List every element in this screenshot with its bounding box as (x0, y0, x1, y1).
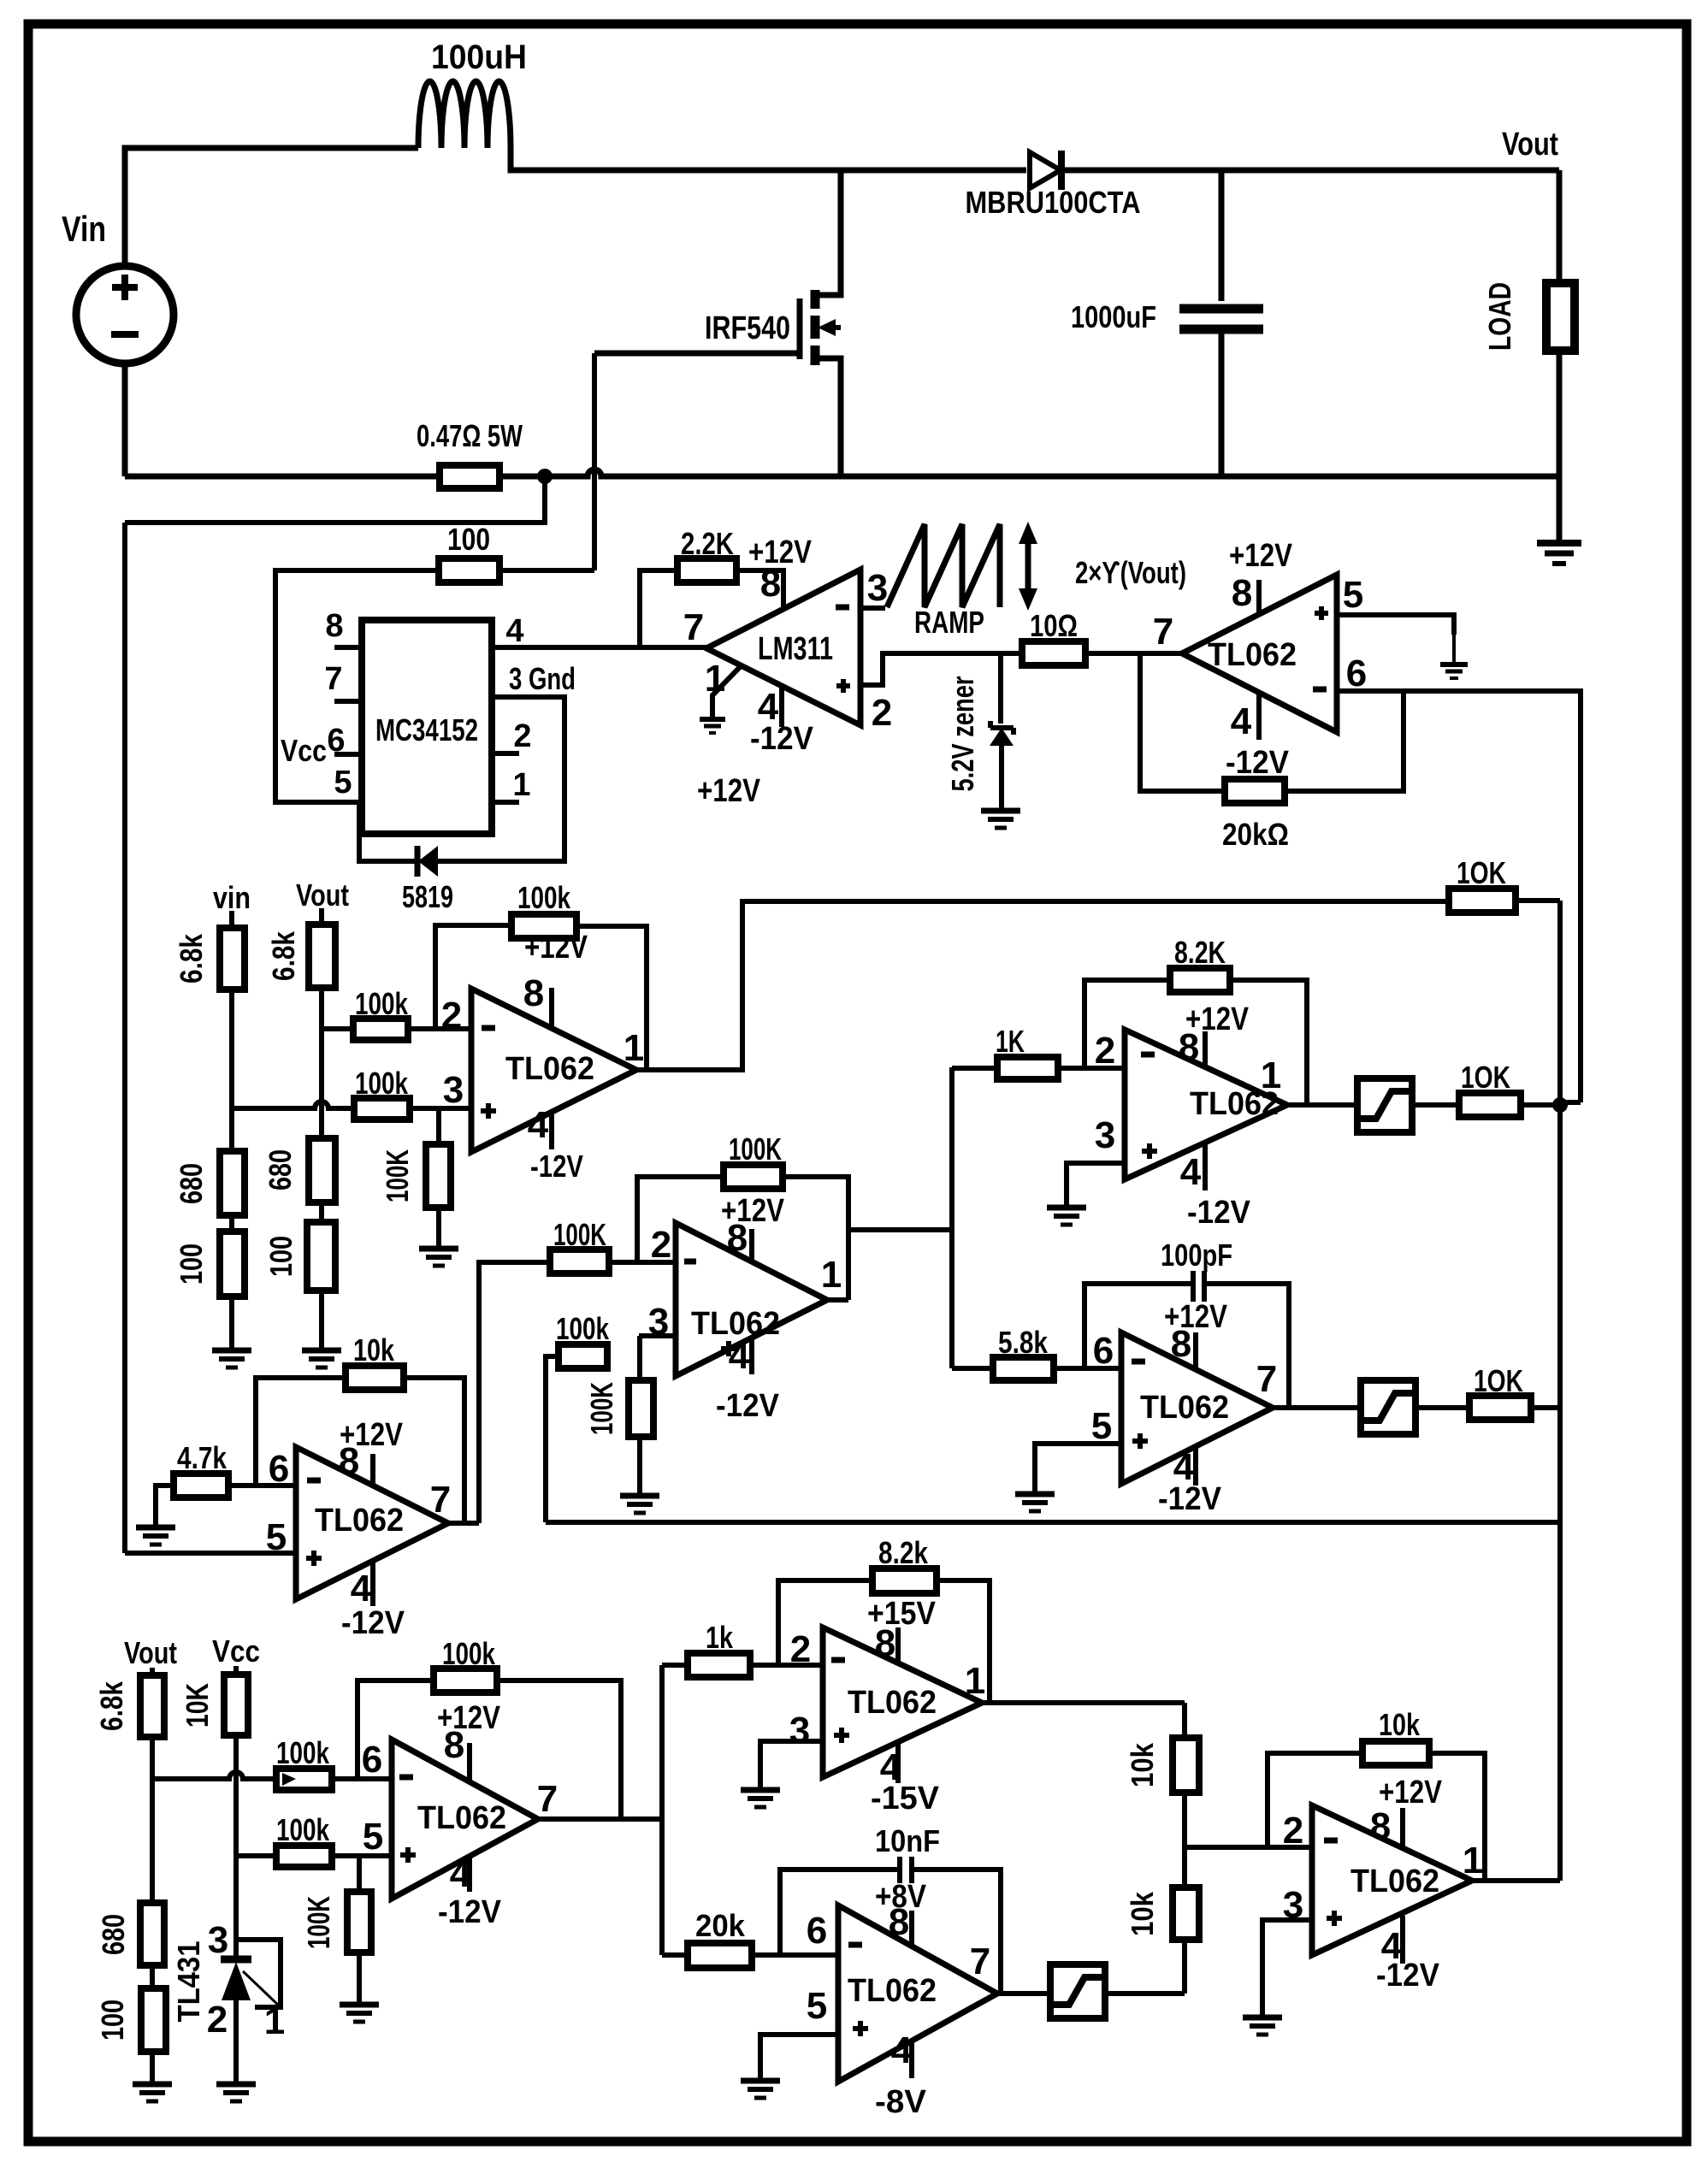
resistor R11 100 (307, 1222, 335, 1291)
op-amp U3 TL062 ramp buffer (1182, 575, 1337, 732)
resistor R12 100k (354, 1098, 410, 1119)
pin 8 stub (370, 1454, 375, 1486)
ground 4.7k (136, 1525, 175, 1531)
svg-text:TL062: TL062 (1350, 1864, 1439, 1899)
wire feedback right (1429, 1753, 1485, 1881)
plus sign (306, 1556, 322, 1561)
wire (229, 1215, 234, 1232)
wire 100 right lead (499, 568, 594, 573)
svg-text:8: 8 (1171, 1323, 1191, 1365)
op-amp U2 LM311 (706, 570, 860, 725)
resistor R5 20k (1225, 779, 1285, 803)
svg-text:7: 7 (970, 1940, 990, 1982)
svg-text:3: 3 (208, 1919, 228, 1961)
svg-text:Vout: Vout (124, 1635, 177, 1670)
svg-text:100k: 100k (442, 1636, 496, 1671)
wire feedback right (1285, 691, 1404, 791)
wire feedback right (404, 1378, 464, 1523)
pin 8 stub (1256, 580, 1262, 614)
wire TL431 anode (233, 2000, 239, 2082)
wire U9 output (538, 1816, 662, 1822)
pin 4 stub (1193, 1446, 1198, 1486)
svg-text:1: 1 (705, 658, 725, 700)
svg-text:MBRU100CTA: MBRU100CTA (966, 185, 1141, 220)
plus sign (836, 683, 850, 688)
svg-text:4: 4 (729, 1335, 750, 1377)
svg-text:10nF: 10nF (875, 1823, 940, 1858)
svg-text:6.8k: 6.8k (266, 930, 301, 981)
svg-text:100K: 100K (301, 1896, 336, 1949)
svg-text:Vout: Vout (296, 877, 349, 913)
svg-text:LM311: LM311 (758, 631, 833, 667)
resistor R24 1OK (1459, 1093, 1521, 1117)
wire feedback bracket (435, 925, 511, 1029)
svg-text:3: 3 (443, 1069, 464, 1111)
wire 1k leads (662, 1663, 688, 1668)
wire output row (448, 1521, 479, 1526)
wire 1OK to node (1521, 1102, 1560, 1108)
svg-text:LOAD: LOAD (1482, 282, 1517, 351)
svg-text:5: 5 (1091, 1405, 1112, 1447)
wire output (1273, 1405, 1361, 1410)
limiter block 2 (1361, 1380, 1415, 1434)
wire feedback right (1230, 980, 1307, 1105)
svg-text:8: 8 (523, 972, 544, 1014)
wire Q1 source (815, 358, 841, 476)
svg-text:5: 5 (334, 765, 352, 800)
svg-text:10k: 10k (353, 1332, 395, 1367)
ground power rail (1557, 476, 1563, 541)
svg-text:TL062: TL062 (848, 1685, 937, 1721)
svg-text:10k: 10k (1125, 1891, 1160, 1936)
pin 2 wire (860, 653, 1022, 685)
svg-text:TL062: TL062 (1140, 1390, 1229, 1426)
svg-text:2: 2 (872, 692, 892, 734)
svg-text:6.8k: 6.8k (94, 1681, 129, 1731)
op-amp U10 TL062 +15V (823, 1627, 982, 1777)
svg-text:-12V: -12V (1226, 745, 1290, 781)
wire to 1OK (1412, 1102, 1459, 1108)
svg-text:7: 7 (1256, 1358, 1277, 1400)
svg-text:3: 3 (648, 1301, 669, 1343)
wire input riser (479, 1262, 550, 1523)
svg-text:10k: 10k (1125, 1742, 1160, 1787)
svg-text:TL062: TL062 (1208, 637, 1297, 673)
svg-text:Vcc: Vcc (281, 733, 327, 768)
svg-text:RAMP: RAMP (914, 605, 984, 640)
transistor Q1 IRF540 MOSFET (797, 298, 803, 359)
svg-text:100uH: 100uH (431, 38, 527, 76)
pin 8 stub (895, 1627, 901, 1665)
svg-text:TL431: TL431 (171, 1941, 206, 2023)
svg-text:6: 6 (1093, 1330, 1114, 1372)
resistor R41 10k feedback (1362, 1741, 1429, 1765)
svg-text:+12V: +12V (1229, 538, 1293, 574)
wire output (1287, 1102, 1357, 1108)
wire 10ohm to TL062 (1085, 651, 1182, 656)
wire pin2 row (322, 1026, 353, 1031)
wire (150, 1965, 155, 1988)
svg-text:Vout: Vout (1502, 127, 1558, 162)
wire to ground (357, 1952, 362, 2003)
wire 8.2k feedback left (778, 1580, 872, 1665)
wire splitter (659, 1665, 665, 1955)
minus sign (307, 1478, 321, 1484)
svg-text:2: 2 (441, 995, 462, 1037)
wire 1OK top right (1516, 898, 1560, 903)
wire 1K input riser (949, 1067, 954, 1368)
svg-text:6: 6 (269, 1448, 289, 1490)
svg-text:100K: 100K (584, 1382, 619, 1435)
pin 3 wire (1262, 1920, 1312, 2016)
svg-text:-12V: -12V (438, 1894, 502, 1930)
svg-text:100K: 100K (380, 1149, 415, 1202)
wire output (827, 1297, 848, 1303)
svg-text:-15V: -15V (871, 1781, 940, 1816)
wire (319, 988, 324, 1138)
divider Vout wire (319, 908, 324, 924)
wire feedback right (913, 1870, 1001, 1994)
minus sign (1313, 687, 1327, 693)
pin 8 stub (549, 988, 554, 1028)
svg-text:1: 1 (965, 1660, 985, 1702)
op-amp U8 TL062 integrator (1121, 1332, 1273, 1484)
pin 8 stub (1203, 1031, 1208, 1066)
pin 4 stub (1203, 1143, 1208, 1190)
svg-text:5: 5 (1343, 574, 1363, 616)
resistor R8 100 (220, 1232, 245, 1297)
wire pin5 row (236, 1853, 276, 1858)
wire feedback left (1268, 1753, 1362, 1847)
resistor R10 680 (309, 1138, 335, 1202)
resistor R29 680 (140, 1903, 164, 1965)
wire feedback left (358, 1681, 434, 1779)
resistor R34 100K pulldown (357, 1856, 362, 1892)
wire 1OK to bus (1531, 1405, 1560, 1410)
wire Vin bottom (122, 363, 128, 476)
svg-text:5: 5 (363, 1816, 383, 1858)
svg-text:4: 4 (1180, 1151, 1202, 1193)
resistor R38 20k (688, 1943, 752, 1968)
svg-text:-12V: -12V (341, 1605, 405, 1641)
wire 5.8k leads (952, 1366, 993, 1371)
wire Q1 drain (815, 170, 841, 295)
svg-text:8: 8 (889, 1901, 909, 1943)
svg-text:100: 100 (95, 2000, 130, 2041)
svg-text:-12V: -12V (750, 721, 814, 757)
ground TL431 (216, 2082, 256, 2088)
resistor R30 100 (141, 1988, 166, 2052)
svg-text:4: 4 (505, 613, 523, 649)
ground pin5 (741, 2078, 780, 2084)
svg-text:3 Gnd: 3 Gnd (509, 661, 576, 696)
svg-text:1: 1 (264, 2000, 285, 2042)
minus sign (836, 605, 849, 611)
ground Vout divider (302, 1348, 341, 1354)
wire feedback right (937, 1580, 990, 1703)
svg-text:8: 8 (727, 1217, 748, 1259)
resistor R4 10ohm (1022, 641, 1085, 665)
svg-text:10K: 10K (180, 1683, 215, 1728)
pin 4 stub (370, 1561, 375, 1606)
svg-text:100: 100 (447, 522, 490, 557)
op-amp U4 TL062 diff amp (471, 989, 636, 1152)
ground 100K (340, 2002, 379, 2008)
svg-text:7: 7 (537, 1778, 558, 1820)
svg-text:2: 2 (651, 1224, 671, 1266)
op-amp U9 TL062 error amp 2 (392, 1740, 538, 1899)
svg-text:20kΩ: 20kΩ (1222, 817, 1289, 852)
op-amp U11 TL062 +8V (838, 1905, 997, 2082)
resistor R13 100K pulldown (436, 1108, 441, 1144)
wire to 1OK (1415, 1405, 1469, 1410)
resistor R40 10k vertical 2 (1173, 1887, 1199, 1940)
ground pin3 (741, 1787, 780, 1793)
limiter block 3 (1050, 1964, 1105, 2018)
svg-text:680: 680 (96, 1914, 131, 1955)
wire pin2 row (609, 1260, 676, 1265)
svg-text:1: 1 (1463, 1840, 1483, 1881)
minus sign (482, 1025, 495, 1031)
svg-text:8: 8 (760, 563, 781, 605)
svg-text:8: 8 (875, 1622, 895, 1664)
wire node row pin3 (232, 1102, 354, 1108)
plus sign (1132, 1438, 1148, 1444)
resistor R25 1OK top (1449, 889, 1516, 913)
pin 5 wire (1337, 615, 1454, 635)
wire Vcc bracket (275, 570, 439, 802)
ground Vout divider (133, 2082, 172, 2088)
wire feedback left (637, 1177, 724, 1262)
wire 100k left to long row (546, 1356, 558, 1522)
svg-text:-8V: -8V (875, 2084, 927, 2120)
svg-text:1k: 1k (706, 1620, 734, 1655)
svg-text:-12V: -12V (1187, 1195, 1251, 1231)
inductor L1 100uH (418, 81, 511, 148)
svg-text:10Ω: 10Ω (1030, 608, 1078, 643)
resistor LOAD (1557, 170, 1563, 283)
svg-text:Vcc: Vcc (212, 1633, 260, 1669)
wire 10k2 bottom (1182, 1940, 1187, 1994)
ground (620, 1493, 659, 1499)
wire pin2 bracket (1084, 980, 1170, 1068)
resistor R31 10K (224, 1675, 248, 1735)
svg-text:1OK: 1OK (1461, 1060, 1510, 1095)
resistor R21 4.7k (174, 1474, 228, 1497)
wire sense branch (125, 476, 545, 523)
svg-text:1: 1 (821, 1254, 842, 1296)
plus sign (834, 1733, 849, 1738)
svg-text:5.8k: 5.8k (998, 1325, 1049, 1360)
op-amp U5 TL062 inverting (676, 1223, 827, 1376)
wire output U10 (982, 1700, 1185, 1705)
diode D1 MBRU100CTA (1030, 152, 1061, 188)
ground 100K (419, 1246, 458, 1252)
ground LM311 pin1 (700, 717, 725, 722)
op-amp U7 TL062 gain (1125, 1030, 1287, 1179)
resistor R23 8.2K feedback (1170, 968, 1230, 992)
resistor R15 100k feedback (511, 914, 576, 938)
pin 3 lead (860, 605, 885, 611)
ramp arrow (1025, 539, 1031, 594)
plus sign (481, 1108, 496, 1113)
svg-text:1000uF: 1000uF (1071, 299, 1156, 334)
svg-text:100k: 100k (276, 1735, 330, 1770)
svg-text:100: 100 (174, 1243, 209, 1285)
svg-text:5819: 5819 (402, 879, 453, 914)
zener D3 5.2V (998, 653, 1003, 724)
wire node to pin2 (1185, 1845, 1312, 1850)
resistor R7 680 (220, 1151, 245, 1215)
pin 1 stub (492, 800, 519, 805)
ground zener (981, 808, 1020, 814)
wire to ground (319, 1291, 324, 1349)
svg-text:6.8k: 6.8k (174, 933, 209, 984)
svg-text:100k: 100k (355, 1066, 409, 1101)
wire output U12 to bus (1472, 1878, 1560, 1883)
wire pin3 gnd bracket (438, 697, 564, 861)
pin 4 stub (909, 2041, 914, 2078)
pin 2 stub (492, 751, 519, 756)
svg-text:7: 7 (683, 606, 704, 648)
minus sign (399, 1775, 413, 1781)
plus sign (400, 1852, 416, 1858)
svg-text:+12V: +12V (524, 930, 588, 966)
resistor R27 1OK (1469, 1396, 1531, 1420)
svg-text:100: 100 (263, 1236, 298, 1277)
svg-text:TL062: TL062 (505, 1051, 594, 1087)
minus sign (1132, 1359, 1145, 1365)
capacitor C1 1000uF (1219, 170, 1225, 301)
pin 8 stub (1193, 1332, 1198, 1369)
svg-text:8.2k: 8.2k (878, 1535, 929, 1570)
svg-text:100k: 100k (556, 1311, 610, 1346)
wire to pin5 (332, 1853, 392, 1858)
wire left bus (122, 523, 127, 1553)
svg-text:7: 7 (430, 1479, 451, 1521)
ground pin5 (1015, 1492, 1055, 1497)
junction dot feedback node (1552, 1097, 1568, 1113)
IC U1 MC34152 (362, 620, 492, 834)
svg-text:680: 680 (263, 1149, 298, 1190)
svg-text:4: 4 (351, 1568, 372, 1610)
wire (229, 989, 234, 1151)
svg-text:TL062: TL062 (417, 1800, 506, 1836)
svg-text:6: 6 (1346, 653, 1367, 694)
minus sign (1141, 1052, 1155, 1058)
wire 20k leads (662, 1952, 688, 1958)
ground pin5 (1440, 662, 1468, 667)
svg-text:vin: vin (213, 880, 251, 915)
wire (150, 2052, 155, 2082)
resistor R6 6.8k (220, 928, 245, 989)
svg-text:1: 1 (624, 1027, 644, 1069)
pin 4 stub (779, 686, 784, 727)
svg-text:10k: 10k (1379, 1707, 1421, 1742)
wire node row with hop (152, 1772, 276, 1779)
svg-text:0.47Ω 5W: 0.47Ω 5W (417, 418, 523, 453)
wire Vin top (125, 148, 418, 266)
pin 6 wire (1337, 691, 1581, 1102)
plus sign (721, 1346, 736, 1351)
capacitor C3 10nF (897, 1857, 902, 1883)
svg-text:100k: 100k (355, 986, 409, 1021)
minus sign (831, 1657, 845, 1663)
svg-text:4: 4 (1231, 700, 1252, 742)
wire 2.2K right to +12V (736, 570, 783, 609)
resistor R20 10k feedback (346, 1366, 404, 1390)
resistor R28 6.8k (140, 1675, 164, 1737)
svg-text:4: 4 (528, 1104, 549, 1146)
svg-text:2: 2 (513, 718, 531, 754)
junction dot rail sense (537, 469, 553, 484)
resistor R36 1k (688, 1653, 750, 1677)
pin 4 stub (549, 1112, 554, 1149)
svg-text:1OK: 1OK (1474, 1363, 1523, 1398)
pin 7 stub (334, 699, 362, 704)
svg-text:3: 3 (789, 1710, 810, 1751)
svg-text:2: 2 (1095, 1030, 1115, 1072)
resistor R33 100k pin5 (276, 1846, 332, 1867)
svg-text:4: 4 (450, 1853, 471, 1895)
op-amp U12 TL062 final (1312, 1805, 1472, 1955)
divider vin wire (229, 911, 234, 928)
pin 8 stub (749, 1229, 754, 1261)
svg-text:8: 8 (1179, 1026, 1199, 1068)
wire to pin2 (408, 1026, 471, 1031)
ground vin divider (212, 1348, 251, 1354)
svg-text:680: 680 (174, 1163, 209, 1204)
wire (150, 1668, 155, 1675)
svg-text:5: 5 (807, 1985, 827, 2027)
bottom rail wire (125, 470, 1559, 476)
resistor R9 6.8k (309, 924, 335, 988)
resistor R14 100k (353, 1019, 408, 1040)
resistor R22 1K (997, 1057, 1058, 1079)
pin 4 stub (467, 1857, 472, 1892)
diode D2 5819 (418, 846, 438, 877)
svg-text:2: 2 (207, 1999, 228, 2041)
pin 4 stub (1400, 1916, 1405, 1964)
pin 1 wire (712, 666, 741, 718)
svg-text:4: 4 (891, 2029, 913, 2071)
ramp waveform (887, 524, 1000, 607)
svg-text:8: 8 (1370, 1805, 1391, 1847)
pin 3 wire (1067, 1163, 1125, 1206)
pin 8 stub (909, 1911, 914, 1946)
svg-text:TL062: TL062 (315, 1503, 404, 1539)
minus sign (848, 1942, 862, 1948)
resistor R16 100K input (550, 1249, 609, 1273)
pin 6 stub (334, 752, 362, 757)
minus sign (684, 1259, 696, 1265)
resistor R32 100k pin6 (276, 1769, 332, 1790)
pin 8 stub (1400, 1808, 1405, 1848)
wire output U11 (997, 1991, 1050, 1996)
resistor R35 100k feedback (434, 1669, 497, 1692)
wire diode to Vout corner (1061, 168, 1559, 174)
svg-text:-12V: -12V (1376, 1958, 1440, 1994)
svg-text:1: 1 (1261, 1054, 1281, 1096)
wire Vcc down to TL431 (233, 1735, 239, 1959)
pin 4 stub (749, 1338, 754, 1374)
svg-text:2: 2 (1283, 1810, 1303, 1852)
wire to pin3 (410, 1106, 471, 1111)
wire 4.7k to ground (156, 1486, 174, 1526)
ground pin3 (1047, 1205, 1086, 1211)
wire limiter to 10k ladder (1105, 1991, 1185, 1996)
wire (150, 1737, 155, 1903)
